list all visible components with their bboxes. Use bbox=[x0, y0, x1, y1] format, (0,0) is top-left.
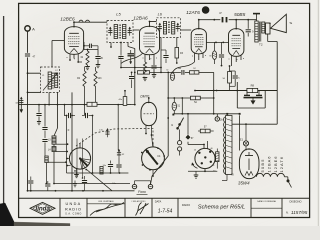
wire cap to R12 bbox=[185, 71, 190, 73]
wire T2 plate top bar bbox=[253, 14, 260, 21]
svg-text:UNDA: UNDA bbox=[66, 202, 82, 206]
ground filter caps bbox=[251, 101, 255, 105]
wire B+ box right bbox=[264, 91, 266, 109]
wire R12 right bbox=[199, 72, 215, 113]
capacitor C9 bbox=[129, 72, 134, 89]
scan artifact bottom edge smudge bbox=[14, 222, 70, 226]
trimmer C7a bbox=[99, 128, 110, 137]
tube V3 12AT6 bbox=[186, 10, 206, 54]
svg-text:L'UFF. ACCORDO: L'UFF. ACCORDO bbox=[132, 200, 147, 203]
wire fono leads bbox=[135, 181, 151, 185]
resistor R4 bbox=[191, 96, 201, 104]
IF1 core bbox=[119, 25, 120, 39]
IF transformer L5 dashed box bbox=[107, 12, 133, 43]
wire B+ box bottom bbox=[237, 107, 265, 109]
gang1 ground bbox=[74, 169, 79, 178]
switch I1 bbox=[171, 118, 184, 130]
wire antenna to coil bbox=[27, 72, 41, 74]
svg-text:12BA6: 12BA6 bbox=[267, 155, 272, 172]
svg-text:DISEGNO: DISEGNO bbox=[290, 200, 302, 204]
IF1 right trimmer bbox=[128, 27, 132, 36]
IF2 core bbox=[168, 22, 169, 35]
svg-text:linda: linda bbox=[35, 206, 50, 213]
label F bbox=[68, 128, 70, 132]
svg-text:12BE6: 12BE6 bbox=[273, 155, 278, 172]
heater chain ground bbox=[287, 177, 292, 188]
title block top line bbox=[19, 197, 310, 199]
capacitor C11 V4 cathode bbox=[230, 71, 241, 86]
svg-text:50B5: 50B5 bbox=[234, 12, 246, 18]
title text DATA bbox=[155, 199, 162, 203]
heater chain bumps bbox=[256, 173, 287, 176]
svg-text:1157/95: 1157/95 bbox=[291, 210, 308, 215]
resistor R6 V4 cathode bbox=[223, 72, 232, 91]
IF2 secondary winding bbox=[172, 22, 175, 35]
wire y67 line bbox=[121, 67, 162, 69]
title text UNDA RADIO bbox=[65, 202, 82, 215]
label Fono bbox=[137, 190, 148, 194]
svg-text:12AT6: 12AT6 bbox=[279, 156, 284, 173]
tube V4 50B5 bbox=[229, 12, 246, 56]
scan artifact left edge line bbox=[3, 16, 5, 206]
capacitor C12 bottom bbox=[82, 176, 87, 191]
resistor R10 below IF2 bbox=[175, 48, 184, 64]
resistor R2 V2 cathode bbox=[143, 62, 148, 81]
wire coil bottom return bbox=[27, 92, 41, 94]
padding coil small bbox=[45, 156, 48, 184]
title cell office header bbox=[87, 200, 125, 204]
wire volume feed bbox=[151, 72, 169, 184]
label 12BE6 vertical bbox=[273, 155, 278, 172]
linda logo diamond bbox=[30, 202, 55, 214]
wire V3 plate top bbox=[198, 20, 200, 29]
antenna coil tuning arrow bbox=[43, 73, 58, 91]
title signature 1 bbox=[90, 203, 124, 216]
capacitor C13 bottom bbox=[45, 181, 50, 191]
svg-text:S.A. COMO: S.A. COMO bbox=[65, 213, 82, 216]
wire grid return x72 bbox=[71, 92, 73, 191]
svg-text:47: 47 bbox=[219, 12, 222, 15]
fono terminal 2 bbox=[148, 184, 152, 188]
capacitor C23 bbox=[116, 158, 121, 173]
oscillator coil L3 bbox=[48, 136, 56, 144]
svg-text:12AT6: 12AT6 bbox=[186, 10, 200, 16]
small ladder right of wafer bbox=[100, 167, 103, 175]
speaker bbox=[266, 14, 293, 34]
wire left column x45 bbox=[44, 104, 46, 127]
capacitor C7 diamond bbox=[186, 114, 194, 140]
resistor R8 filter bbox=[247, 84, 258, 93]
title block divider 7 bbox=[281, 198, 283, 217]
resistor R7 bbox=[198, 114, 214, 133]
wire right of gang1 bbox=[91, 115, 93, 173]
mechanical link dashed bbox=[76, 128, 153, 147]
wire osc coil top bbox=[54, 92, 58, 135]
svg-text:Ta: Ta bbox=[289, 21, 292, 25]
wire switch to jack bbox=[179, 130, 181, 156]
capacitor C22 bbox=[103, 161, 113, 174]
svg-text:RADIO: RADIO bbox=[182, 203, 190, 207]
resistor R9 on bus bbox=[87, 102, 97, 106]
wire IF2 bottom stubs bbox=[160, 37, 177, 73]
tuning capacitor gang2 bbox=[141, 143, 165, 171]
trimmer C8a bbox=[117, 149, 125, 158]
filter caps common plate bbox=[244, 98, 263, 101]
capacitor C20 filter bbox=[244, 91, 250, 96]
wire V1 plate to IF1 bbox=[74, 20, 107, 27]
pot rotation curl bbox=[192, 163, 198, 169]
tube V2 12BA6 bbox=[133, 16, 159, 55]
scan artifact right edge faint line bbox=[317, 0, 319, 226]
IF1 left trimmer bbox=[108, 27, 112, 36]
wire V3 V4 coupling bbox=[206, 42, 228, 44]
wire T3 bottom bbox=[222, 173, 234, 180]
wire speaker return down bbox=[268, 34, 278, 124]
wire x64 vertical bbox=[64, 104, 66, 116]
svg-text:57: 57 bbox=[204, 126, 207, 129]
scan artifact bottom-left dark streak bbox=[0, 203, 15, 226]
wire R4 left bbox=[167, 97, 190, 99]
ground C3b bbox=[37, 122, 41, 125]
wire C17 to T2 bbox=[229, 19, 257, 29]
wire L4 bottom bbox=[53, 152, 130, 185]
wire IF1 bottom stubs bbox=[110, 43, 135, 49]
antenna coil shield dashed box bbox=[41, 67, 60, 92]
IF1 secondary winding bbox=[123, 25, 126, 39]
band switch wafer bbox=[66, 139, 91, 179]
IF transformer L6 dashed box bbox=[157, 13, 181, 38]
wire coil taps bbox=[48, 143, 68, 163]
svg-text:DATA DI CONSEGNA: DATA DI CONSEGNA bbox=[257, 200, 276, 203]
wire DM70 leads bbox=[145, 125, 153, 146]
svg-text:Fono: Fono bbox=[138, 190, 146, 194]
title block divider 1 bbox=[59, 198, 61, 217]
title signature 2 bbox=[136, 203, 149, 216]
capacitor C3b bbox=[36, 104, 41, 121]
resistor R2b osc grid bbox=[94, 67, 102, 105]
svg-text:12BA6: 12BA6 bbox=[133, 16, 148, 22]
svg-text:DATA: DATA bbox=[155, 199, 162, 203]
capacitor C3 bbox=[64, 113, 75, 118]
title handwritten schema per R65/L bbox=[198, 204, 245, 210]
wire V4 bottom leads bbox=[229, 42, 242, 66]
svg-text:E1: E1 bbox=[240, 138, 244, 142]
wire V3 plate to top line bbox=[199, 19, 221, 21]
jack contact 2 bbox=[178, 147, 182, 151]
svg-text:UFF. CENTRALE: UFF. CENTRALE bbox=[98, 200, 114, 203]
wire pot top bbox=[188, 141, 208, 149]
jack contact 1 bbox=[178, 141, 182, 145]
antenna coil L2 winding bbox=[55, 70, 59, 88]
gang2 stator lead bbox=[152, 170, 154, 177]
heater transformer T3 bbox=[224, 116, 232, 175]
wire R4 right bbox=[200, 97, 213, 99]
wire plate line to T2 bbox=[255, 19, 257, 21]
terminal B bbox=[215, 114, 223, 122]
capacitor C13 series bbox=[178, 67, 184, 75]
wire V1 bottom leads bbox=[69, 53, 79, 63]
wire V1 grid tap bbox=[52, 41, 65, 68]
title text RADIO bbox=[182, 203, 190, 207]
svg-text:50B5: 50B5 bbox=[260, 158, 265, 172]
title block divider 2 bbox=[86, 198, 88, 217]
wire coil box bottom drop bbox=[48, 92, 50, 105]
scan artifact paper mottling bbox=[15, 10, 310, 210]
wire y173 line bbox=[67, 172, 129, 174]
wire V3 diode curve bbox=[173, 62, 195, 72]
IF2 primary winding bbox=[163, 22, 166, 35]
oscillator coil L4 bbox=[48, 147, 56, 152]
capacitor C10b AVC bbox=[118, 50, 134, 64]
title text DATA DI CONSEGNA bbox=[251, 200, 282, 208]
title text DISEGNO bbox=[290, 200, 302, 204]
potentiometer element bbox=[213, 149, 219, 173]
wire V2 plate up bbox=[150, 22, 157, 27]
wire gang2 up right bbox=[153, 105, 155, 118]
wire B+ bus bbox=[195, 90, 277, 92]
IF2 right trimmer bbox=[176, 23, 180, 32]
wire V2 bottom leads bbox=[145, 54, 154, 65]
capacitor C5a top bbox=[83, 44, 98, 50]
resistor R3 bbox=[138, 71, 150, 80]
resistor R11 oval bbox=[167, 69, 175, 81]
capacitor C4 vert bbox=[42, 128, 47, 139]
tuning indicator tube V6 DM70 bbox=[140, 94, 156, 125]
capacitor C4b vert bbox=[42, 140, 47, 157]
capacitor C1 bbox=[24, 53, 35, 59]
ground C6 bbox=[96, 65, 101, 68]
capacitor C19 at V4 bbox=[246, 19, 255, 37]
label 12AT6 vertical bbox=[279, 156, 284, 173]
svg-text:1-7-54: 1-7-54 bbox=[158, 208, 173, 214]
svg-text:6r: 6r bbox=[167, 69, 169, 72]
capacitor C5 bbox=[82, 113, 91, 118]
resistor R12 box bbox=[190, 68, 199, 74]
wire mid bus bbox=[19, 104, 136, 106]
wire T3 to speaker return bbox=[232, 123, 277, 125]
capacitor C18 V3 cathode bbox=[215, 42, 225, 66]
title block divider 6 bbox=[250, 198, 252, 217]
capacitor C1b bottom left bbox=[28, 177, 33, 192]
fono terminal 1 bbox=[132, 184, 136, 188]
svg-text:R8: R8 bbox=[251, 84, 255, 88]
wire bottom bus bbox=[28, 190, 135, 192]
wire V4 cathode down bbox=[229, 65, 232, 71]
capacitor C8 V2 cathode bbox=[151, 66, 156, 78]
svg-text:N.: N. bbox=[286, 211, 289, 215]
volume potentiometer socket bbox=[194, 148, 215, 169]
wire pot bottom ground bbox=[194, 171, 199, 178]
svg-text:A: A bbox=[32, 26, 35, 31]
switch pad bbox=[172, 114, 174, 116]
tube V1 12BE6 bbox=[60, 16, 83, 54]
IF2 left trimmer bbox=[158, 23, 162, 32]
capacitor C10 below IF1 bbox=[118, 43, 123, 69]
wire x182 drop bbox=[181, 97, 183, 115]
wire V2 lead curve left bbox=[121, 53, 143, 64]
antenna coil core bbox=[53, 73, 54, 89]
wire V1 cathode cross bbox=[78, 42, 98, 62]
resistor R1 V1 cathode bbox=[80, 50, 89, 67]
title block divider 4 bbox=[151, 198, 153, 217]
ground mid bottom bbox=[73, 181, 77, 187]
wire IF1 to V2 grid bbox=[133, 29, 140, 31]
ground R1 bbox=[85, 67, 90, 70]
wire x118 drop bbox=[117, 104, 119, 151]
scan artifact ink blot dot bbox=[202, 6, 210, 14]
capacitor C6 at V1 cathode bbox=[95, 50, 103, 65]
output transformer T2 bbox=[255, 21, 265, 46]
resistor R5a V3 cathode bbox=[209, 42, 217, 64]
svg-text:RADIO: RADIO bbox=[65, 207, 82, 211]
title block divider 5 bbox=[177, 198, 179, 217]
svg-text:DM70: DM70 bbox=[140, 94, 149, 98]
title cell header 2 bbox=[132, 200, 147, 203]
wire T3 top bbox=[226, 113, 228, 115]
pin number specks bbox=[66, 55, 244, 60]
wire R3 right bbox=[150, 72, 181, 74]
trimmer C2 on frame bbox=[15, 97, 23, 106]
IF1 primary winding bbox=[114, 25, 117, 39]
svg-text:L6: L6 bbox=[158, 13, 163, 17]
label 12BA6 vertical bbox=[267, 155, 272, 172]
wire pot bottom loop bbox=[188, 169, 217, 173]
title handwritten drawing number bbox=[286, 210, 308, 215]
wire switch diag lead bbox=[86, 169, 117, 191]
resistor R2 grid leak bbox=[77, 67, 86, 116]
svg-text:35W4: 35W4 bbox=[238, 180, 250, 185]
svg-text:Schema per R65/L: Schema per R65/L bbox=[198, 204, 245, 210]
resistor R13 44a vertical bbox=[119, 90, 127, 106]
wire B line bbox=[173, 113, 240, 115]
svg-text:T2: T2 bbox=[259, 42, 263, 46]
wire antenna down bbox=[27, 31, 29, 191]
svg-text:5A: 5A bbox=[194, 101, 197, 104]
capacitor C17 top coupling bbox=[219, 12, 226, 23]
svg-text:12BE6: 12BE6 bbox=[60, 16, 75, 22]
earth arrow below trimmer bbox=[20, 105, 23, 113]
svg-text:F: F bbox=[68, 128, 70, 132]
antenna coil L1 winding bbox=[42, 72, 51, 89]
pilot lamp E1 bbox=[240, 123, 249, 150]
wire AVC vertical bbox=[134, 49, 136, 105]
svg-text:2b: 2b bbox=[220, 119, 223, 122]
wire V3 bottom leads bbox=[195, 53, 204, 63]
misc junction dots bbox=[27, 19, 200, 192]
antenna terminal A bbox=[25, 26, 35, 32]
title handwritten date 1-7-54 bbox=[158, 208, 173, 214]
svg-text:L5: L5 bbox=[116, 12, 121, 17]
wire B+ box left bbox=[236, 82, 238, 108]
label 50B5 vertical bbox=[260, 158, 265, 172]
resistor R5 oval bbox=[172, 97, 181, 114]
wire IF2 to V3 grid bbox=[181, 29, 192, 31]
wire left of gang1 bbox=[64, 115, 68, 173]
wire rectifier drop bbox=[239, 115, 241, 150]
capacitor C14 below IF2 bbox=[161, 50, 169, 63]
title block divider 3 bbox=[124, 198, 126, 217]
wire speaker return join bbox=[276, 123, 278, 125]
tube V5 35W4 bbox=[238, 148, 259, 185]
capacitor C21 filter bbox=[256, 91, 262, 96]
